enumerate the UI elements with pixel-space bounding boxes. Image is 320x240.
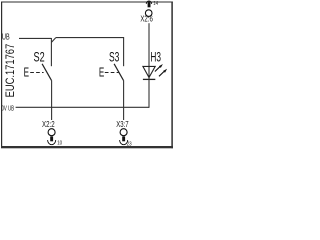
svg-text:S2: S2 [34,50,45,65]
border frame left [1,2,3,149]
svg-text:S3: S3 [109,50,120,65]
terminal circle X2:2 [48,129,55,136]
svg-text:X2:6: X2:6 [140,14,153,23]
wire corner down to S3 [123,38,125,67]
wire S2 to terminal X2:2 [51,80,53,120]
svg-text:EUC.171767: EUC.171767 [3,44,17,98]
wire junction 45-degree jog [51,38,55,43]
connector socket arc (bottom X3:7) [120,140,128,145]
svg-text:X2:2: X2:2 [42,120,55,129]
switch S3 blade [114,64,123,81]
LED H3 triangle [143,66,155,77]
LED H3 cathode bar [143,78,155,80]
switch S3 actuator dashed link [105,72,119,74]
svg-text:0V UB: 0V UB [2,103,15,112]
LED H3 light arrow 2 [159,69,167,77]
LED H3 light arrow 1 [155,64,163,72]
connector socket arc (bottom X2:2) [48,140,56,145]
wire UB rail left segment [19,37,51,39]
svg-text:10: 10 [57,140,62,146]
switch S2 blade [42,64,51,81]
terminal circle X2:6 [145,10,152,17]
wire UB rail right segment [56,37,124,39]
connector pin 14 (top, X2:6) [148,2,151,7]
svg-text:H3: H3 [150,50,161,65]
svg-text:E: E [99,65,104,79]
border frame top [1,1,173,3]
svg-text:14: 14 [153,1,158,7]
svg-text:23: 23 [127,141,132,147]
terminal circle X3:7 [120,129,127,136]
wire branch to S2 (vertical drop) [50,38,52,66]
connector socket arc (top) [146,1,152,4]
connector pin (bottom X3:7) [122,136,125,141]
svg-text:X3:7: X3:7 [116,120,128,129]
wire H3 cathode down to 0V rail [148,79,150,107]
wire 0V UB rail [16,106,149,108]
switch S2 actuator dashed link [30,72,43,74]
svg-text:UB: UB [2,32,10,41]
wire S3 to terminal X3:7 [123,80,125,120]
border frame right [171,2,173,149]
wire X2:6 to H3 anode [148,23,150,79]
connector pin (bottom X2:2) [50,136,53,141]
svg-text:E: E [24,65,29,79]
border frame bottom [1,146,173,148]
